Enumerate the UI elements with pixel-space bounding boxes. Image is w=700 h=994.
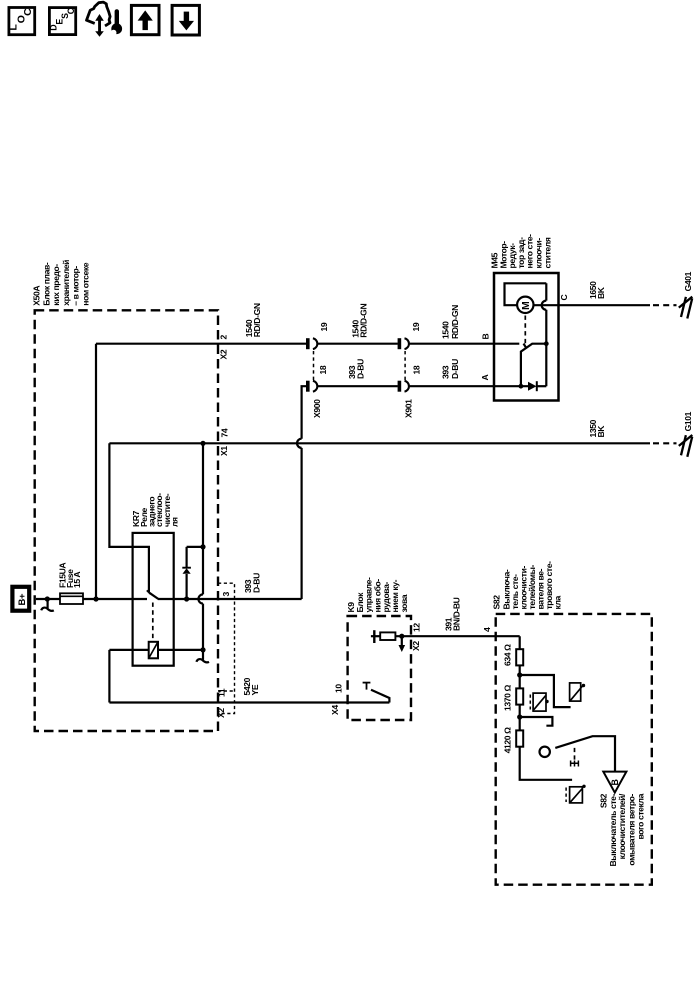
svg-text:18: 18 [412, 365, 422, 374]
svg-text:74: 74 [220, 428, 230, 437]
svg-text:393: 393 [440, 365, 450, 379]
svg-text:D-BU: D-BU [356, 359, 366, 379]
svg-text:1370 Ω: 1370 Ω [503, 684, 513, 711]
svg-text:15 A: 15 A [72, 572, 82, 588]
svg-text:ля: ля [170, 517, 180, 527]
svg-text:18: 18 [318, 365, 328, 374]
svg-text:X901: X901 [403, 399, 413, 418]
svg-text:D-BU: D-BU [450, 359, 460, 379]
svg-text:RD/D-GN: RD/D-GN [450, 305, 460, 339]
svg-text:B: B [610, 780, 620, 786]
svg-text:B+: B+ [17, 593, 28, 605]
svg-text:12: 12 [412, 623, 422, 632]
svg-text:YE: YE [250, 684, 260, 695]
svg-text:4: 4 [482, 627, 492, 632]
svg-text:X1: X1 [219, 446, 229, 456]
svg-text:634 Ω: 634 Ω [503, 644, 513, 666]
svg-text:ном отсеке: ном отсеке [80, 262, 90, 305]
svg-text:X4: X4 [330, 705, 340, 715]
svg-text:стителя: стителя [542, 237, 552, 268]
svg-text:19: 19 [319, 322, 329, 331]
svg-text:RD/D-GN: RD/D-GN [359, 304, 369, 338]
svg-text:зова: зова [399, 594, 409, 612]
svg-text:вого стекла: вого стекла [636, 793, 646, 839]
svg-text:10: 10 [334, 684, 344, 693]
svg-text:C: C [559, 295, 569, 301]
svg-text:ких предо-: ких предо- [51, 264, 61, 306]
svg-text:C: C [22, 8, 34, 16]
svg-text:кла: кла [553, 595, 563, 609]
svg-text:X2: X2 [216, 708, 226, 718]
svg-text:RD/D-GN: RD/D-GN [252, 303, 262, 337]
svg-text:Блок плав-: Блок плав- [41, 262, 51, 306]
svg-text:D-BU: D-BU [252, 573, 262, 593]
svg-text:S82: S82 [492, 595, 502, 610]
svg-text:11: 11 [217, 688, 227, 697]
svg-text:G101: G101 [683, 411, 693, 431]
svg-text:X2: X2 [218, 349, 228, 359]
svg-text:4120 Ω: 4120 Ω [503, 727, 513, 754]
svg-text:1540: 1540 [440, 321, 450, 339]
svg-text:BN/D-BU: BN/D-BU [452, 597, 462, 631]
svg-text:B: B [481, 334, 491, 340]
svg-text:C: C [66, 7, 76, 14]
svg-text:G401: G401 [683, 271, 693, 291]
svg-text:L: L [8, 24, 20, 31]
svg-text:3: 3 [221, 592, 231, 597]
svg-text:BK: BK [596, 425, 606, 438]
svg-text:BK: BK [596, 286, 606, 299]
svg-text:– в мотор-: – в мотор- [71, 266, 81, 306]
svg-text:хранителей: хранителей [61, 260, 71, 306]
svg-text:X2: X2 [411, 641, 421, 651]
svg-text:A: A [480, 375, 490, 381]
svg-text:X50A: X50A [32, 286, 42, 306]
svg-text:D: D [49, 25, 59, 31]
svg-text:X900: X900 [312, 399, 322, 418]
svg-text:19: 19 [411, 322, 421, 331]
svg-text:M: M [521, 302, 532, 310]
svg-text:2: 2 [218, 335, 228, 340]
